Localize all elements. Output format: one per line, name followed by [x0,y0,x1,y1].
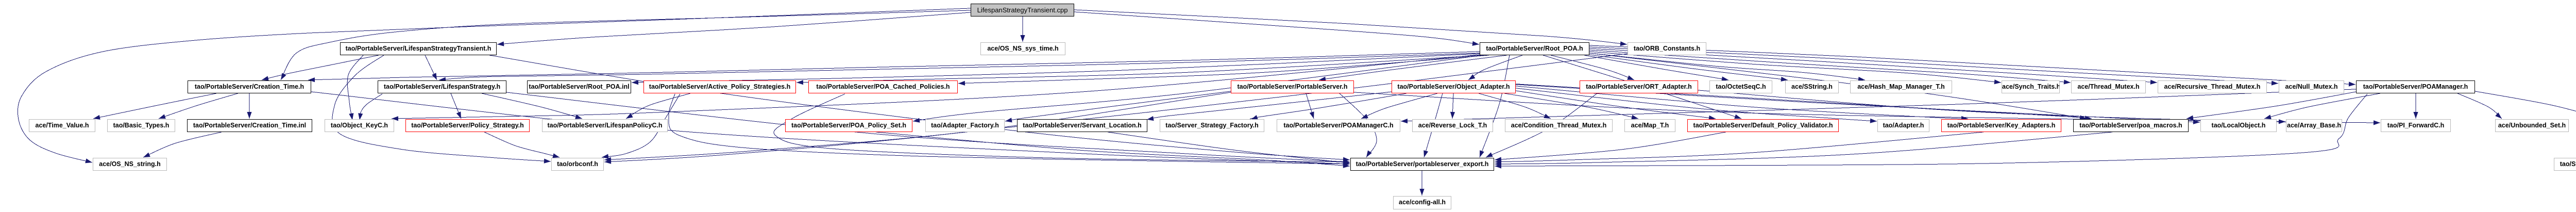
edge ORT_Adapter.h -> portableserver_export.h [1486,93,1597,157]
edge LifespanStrategyTransient.cpp -> OS_NS_string.h [18,8,971,163]
edge Root_POA.h -> portableserver_export.h [1480,55,1510,157]
edge LifespanStrategy.h -> Object_KeyC.h [358,94,382,120]
node tao/PortableServer/Servant_Location.h [1017,119,1147,132]
edge Creation_Time.inl -> OS_NS_string.h [143,132,222,157]
edge Root_POA.h -> Recursive_Thread_Mutex.h [1589,48,2157,85]
edge Root_POA.h -> PortableServer.h [1319,55,1507,81]
edge LifespanStrategyTransient.h -> Object_KeyC.h [347,55,363,120]
edge Policy_Strategy.h -> orbconf.h [484,132,560,158]
edge Key_Adapters.h -> portableserver_export.h [1495,132,1984,164]
edge POAManager.h -> poa_macros.h [2187,92,2356,120]
edge Object_Adapter.h -> Servant_Location.h [1147,92,1392,121]
node tao/PortableServer/Object_Adapter.h [1392,80,1516,93]
edge Root_POA.h -> Root_POA.inl [632,54,1480,85]
edge Root_POA.h -> Creation_Time.h [308,52,1480,82]
edge ORB_Constants.h -> orbconf.h [604,54,1628,164]
edge Object_Adapter.h -> Reverse_Lock_T.h [1450,93,1455,119]
node tao/Adapter.h [1877,119,1929,132]
edge Servant_Location.h -> portableserver_export.h [1108,132,1350,165]
edge Root_POA.h -> Active_Policy_Strategies.h [796,55,1484,85]
edge Object_Adapter.h -> POAManagerC.h [1361,93,1437,119]
edge Root_POA.h -> Hash_Map_Manager_T.h [1589,53,1865,81]
node ace/Null_Mutex.h [2279,80,2344,93]
node tao/orbconf.h [551,158,604,171]
node ace/OS_NS_string.h [93,158,167,171]
edge ORT_Adapter.h -> PI_ForwardC.h [1698,90,2380,125]
edge POAManager.h -> PI_ForwardC.h [2413,93,2418,119]
edge POAManager.h -> POAManagerC.h [1401,89,2356,123]
edge Object_Adapter.h -> Server_Strategy_Factory.h [1250,93,1407,120]
node tao/PortableServer/Policy_Strategy.h [405,119,530,132]
edge Root_POA.h -> Object_KeyC.h [392,55,1480,121]
node tao/PortableServer/PortableServer.h [1231,80,1354,93]
edge PortableServer.h -> POAManagerC.h [1306,93,1314,119]
edge Object_Adapter.h -> Default_Policy_Validator.h [1516,91,1716,120]
edge Active_Policy_Strategies.h -> LifespanPolicyC.h [626,93,690,119]
node tao/PortableServer/Key_Adapters.h [1941,119,2061,132]
edge Root_POA.h -> POA_Policy_Set.h [913,55,1483,123]
edge Object_Adapter.h -> poa_macros.h [1516,84,2092,121]
node ace/Condition_Thread_Mutex.h [1505,119,1613,132]
node tao/PortableServer/POAManager.h [2356,80,2475,93]
node tao/Basic_Types.h [107,119,175,132]
node tao/LocalObject.h [2200,119,2277,132]
node ace/Map_T.h [1624,119,1675,132]
node tao/PortableServer/LifespanStrategy.h [378,80,506,93]
edge Creation_Time.h -> portableserver_export.h [311,92,1350,166]
edge POA_Policy_Set.h -> portableserver_export.h [876,132,1350,168]
node tao/PortableServer/Active_Policy_Strategies.h [643,80,796,93]
edge LifespanStrategy.h -> Policy_Strategy.h [451,93,461,119]
node tao/PortableServer/LifespanPolicyC.h [542,119,668,132]
node tao/PortableServer/Default_Policy_Validator.h [1687,119,1839,132]
edge LifespanStrategyTransient.cpp -> ORB_Constants.h [1074,10,1627,46]
edge PortableServer.h -> Array_Base.h [1354,92,2285,124]
node ace/SString.h [1785,80,1839,93]
edge Creation_Time.h -> Time_Value.h [93,93,216,120]
edge LifespanStrategyTransient.cpp -> LifespanStrategyTransient.h [497,12,971,46]
node tao/PortableServer/Creation_Time.inl [187,119,312,132]
node ace/Recursive_Thread_Mutex.h [2158,80,2267,93]
edge LifespanStrategyTransient.h -> orbconf.h [332,55,551,164]
edge POAManager.h -> LocalObject.h [2264,93,2380,119]
node ace/Hash_Map_Manager_T.h [1850,80,1952,93]
edge POAManager.h -> portableserver_export.h [1495,94,2367,169]
edge LifespanStrategyTransient.cpp -> Creation_Time.h [281,10,971,80]
node tao/PortableServer/portableserver_export.h [1350,158,1494,171]
edge Root_POA.h -> OctetSeqC.h [1584,55,1728,81]
node ace/OS_NS_sys_time.h [980,42,1065,55]
node tao/PortableServer/Creation_Time.h [188,80,311,93]
node tao/SystemException.h [2554,158,2576,171]
edge Root_POA.h -> LifespanStrategy.h [439,53,1480,82]
node tao/PI_ForwardC.h [2381,119,2451,132]
edge POA_Cached_Policies.h -> portableserver_export.h [774,94,1350,164]
edge Object_Adapter.h -> LocalObject.h [1516,85,2200,124]
edge Root_POA.h -> Default_Policy_Validator.h [1543,55,1741,119]
edge Object_Adapter.h -> portableserver_export.h [1423,93,1443,157]
edge Object_Adapter.h -> Condition_Thread_Mutex.h [1479,93,1551,119]
edge PortableServer.h -> orbconf.h [604,92,1231,162]
node tao/PortableServer/POA_Policy_Set.h [785,119,912,132]
edge PortableServer.h -> Adapter_Factory.h [1005,91,1231,122]
node tao/Server_Strategy_Factory.h [1160,119,1264,132]
edge Root_POA.h -> POAManager.h [1589,45,2355,87]
node tao/PortableServer/ORT_Adapter.h [1580,80,1698,93]
edge LifespanStrategyTransient.cpp -> Root_POA.h [1074,12,1479,46]
edge Default_Policy_Validator.h -> portableserver_export.h [1495,132,1726,162]
node ace/Thread_Mutex.h [2071,80,2146,93]
edge Root_POA.h -> SString.h [1589,55,1788,81]
node ace/config-all.h [1393,196,1451,209]
edge Root_POA.h -> Synch_Traits.h [1589,52,2001,84]
node tao/PortableServer/POAManagerC.h [1277,119,1400,132]
edge portableserver_export.h -> config-all.h [1419,171,1424,195]
edge LifespanStrategyTransient.cpp -> OS_NS_sys_time.h [1020,17,1025,42]
edge Object_Adapter.h -> Key_Adapters.h [1516,86,1968,121]
edge LifespanStrategyTransient.h -> Creation_Time.h [262,55,379,80]
edge Creation_Time.h -> Creation_Time.inl [247,93,251,119]
node ace/Unbounded_Set.h [2495,119,2569,132]
edge Creation_Time.h -> Basic_Types.h [159,93,238,119]
edge Root_POA.h -> Object_Adapter.h [1468,55,1522,80]
node ace/Time_Value.h [29,119,95,132]
edge LifespanStrategy.h -> LifespanPolicyC.h [482,93,582,119]
node ace/Array_Base.h [2286,119,2342,132]
edge POAManager.h -> POAManager.inl [2475,91,2576,119]
node ace/Synch_Traits.h [2002,80,2060,93]
edge Root_POA.h -> Null_Mutex.h [1589,47,2278,86]
edge Active_Policy_Strategies.h -> portableserver_export.h [669,94,1350,166]
edge Object_Adapter.h -> Map_T.h [1504,93,1638,120]
node tao/PortableServer/Root_POA.inl [527,80,631,93]
edge Root_POA.h -> ORT_Adapter.h [1551,55,1634,80]
node ace/Reverse_Lock_T.h [1412,119,1493,132]
edge Root_POA.h -> poa_macros.h [1589,53,2087,120]
edge Root_POA.h -> Thread_Mutex.h [1589,50,2071,85]
node tao/ORB_Constants.h [1628,42,1706,55]
edge LifespanStrategyTransient.h -> LifespanStrategy.h [425,55,437,80]
edge POAManager.h -> Unbounded_Set.h [2458,93,2502,119]
node LifespanStrategyTransient.cpp [971,4,1074,17]
node tao/Adapter_Factory.h [925,119,1005,132]
node tao/Object_KeyC.h [325,119,394,132]
node tao/OctetSeqC.h [1709,80,1772,93]
node tao/PortableServer/poa_macros.h [2073,119,2189,132]
edge LifespanStrategy.h -> portableserver_export.h [506,92,1350,164]
edge LifespanStrategyTransient.h -> portableserver_export.h [489,55,1350,162]
edge Root_POA.h -> POA_Cached_Policies.h [958,55,1489,86]
node tao/PortableServer/Root_POA.h [1480,42,1589,55]
node tao/PortableServer/POA_Cached_Policies.h [808,80,958,93]
edge Object_Adapter.h -> Adapter.h [1516,88,1877,123]
edge PortableServer.h -> portableserver_export.h [1340,93,1377,157]
edge poa_macros.h -> portableserver_export.h [1495,132,2112,166]
node tao/PortableServer/LifespanStrategyTransient.h [340,42,497,55]
edge Active_Policy_Strategies.h -> orbconf.h [602,94,680,159]
